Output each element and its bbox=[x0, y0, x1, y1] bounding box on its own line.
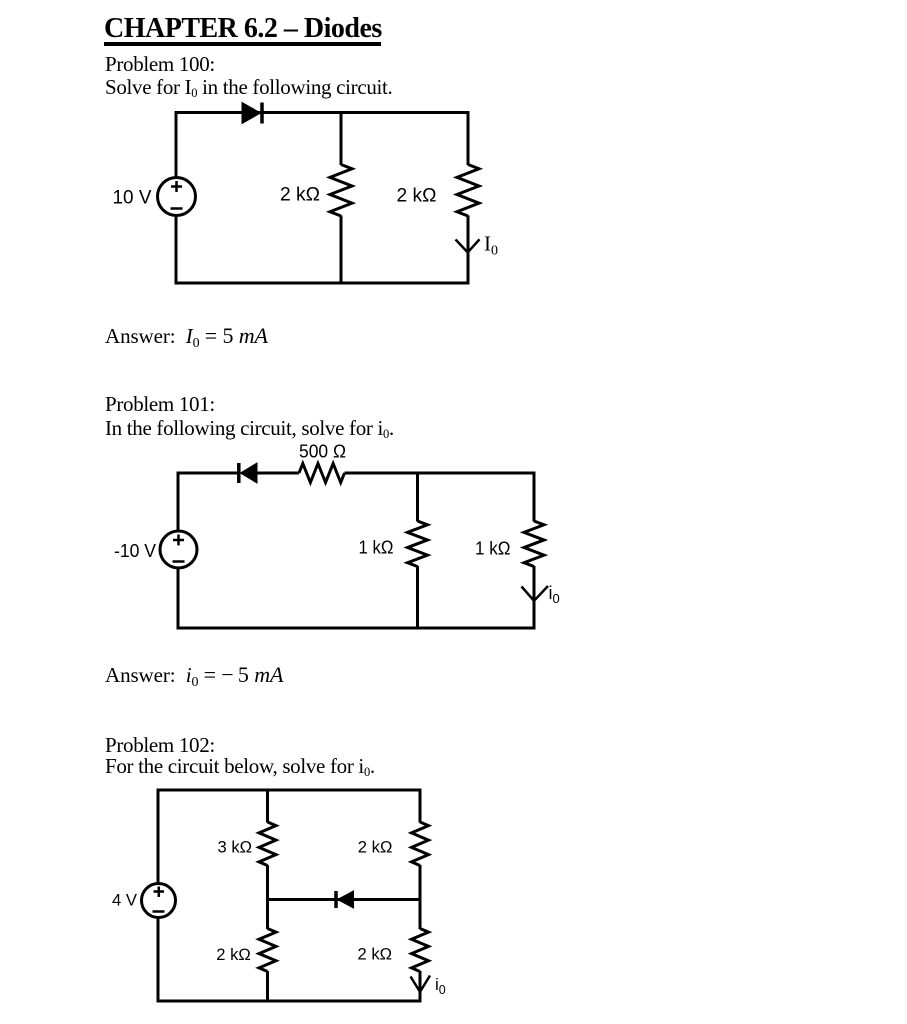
diode D1 bbox=[242, 103, 262, 124]
resistor R9 (2 kOhm, right bottom) bbox=[412, 929, 429, 972]
svg-text:-10 V: -10 V bbox=[114, 541, 156, 561]
paragraph: Problem 102 bbox=[105, 733, 215, 757]
wire: top rail circuit 3 bbox=[157, 789, 422, 792]
resistor R5 (1 kOhm, right branch) bbox=[524, 521, 544, 567]
current arrow I0 bbox=[456, 239, 480, 252]
wire: middle branch lower lead bbox=[340, 216, 343, 285]
wire: middle branch upper lead bbox=[340, 111, 343, 165]
svg-text:2 kΩ: 2 kΩ bbox=[358, 945, 393, 964]
wire: right branch lower lead circuit 2 bbox=[533, 566, 536, 630]
svg-text:3 kΩ: 3 kΩ bbox=[218, 837, 253, 856]
resistor R4 (1 kOhm, middle branch) bbox=[408, 521, 428, 567]
wire: bottom rail circuit 3 bbox=[157, 1000, 422, 1003]
svg-text:500 Ω: 500 Ω bbox=[299, 442, 346, 462]
wire: middle branch upper lead circuit 2 bbox=[416, 472, 419, 522]
wire: middle branch top lead circuit 3 bbox=[266, 789, 269, 823]
diode D2 (pointing left) bbox=[239, 463, 257, 483]
wire: left rail upper (source top lead) bbox=[177, 472, 180, 532]
paragraph: Answer 1 bbox=[105, 324, 268, 348]
wire: middle branch bottom lead circuit 3 bbox=[266, 971, 269, 1003]
wire: left rail lower (source bottom lead) bbox=[175, 216, 178, 285]
svg-text:i0: i0 bbox=[549, 583, 560, 606]
svg-text:2 kΩ: 2 kΩ bbox=[397, 186, 437, 207]
svg-text:1 kΩ: 1 kΩ bbox=[359, 538, 394, 558]
wire: right branch bottom lead circuit 3 bbox=[419, 971, 422, 1003]
paragraph: Solve for I0 bbox=[105, 75, 392, 99]
svg-text:1 kΩ: 1 kΩ bbox=[475, 539, 511, 559]
resistor R8 (2 kOhm, right top) bbox=[412, 822, 429, 866]
resistor R6 (3 kOhm) bbox=[259, 822, 276, 866]
wire: left rail upper (source top lead) bbox=[157, 789, 160, 885]
paragraph: Problem 100 bbox=[105, 52, 215, 76]
wire: left rail lower (source bottom lead) bbox=[157, 918, 160, 1003]
wire: right branch lower lead bbox=[467, 216, 470, 285]
paragraph: Problem 101 bbox=[105, 392, 215, 416]
wire: right branch upper lead bbox=[467, 111, 470, 165]
wire: center horizontal wire (node between branches) bbox=[266, 898, 422, 901]
title: CHAPTER 6.2 - Diodes bbox=[104, 13, 382, 45]
svg-text:2 kΩ: 2 kΩ bbox=[358, 837, 393, 856]
wire: right branch center segment circuit 3 bbox=[419, 865, 422, 929]
paragraph: Answer 2 bbox=[105, 663, 283, 687]
voltage source VS2 (-10 V) bbox=[160, 531, 197, 568]
svg-text:10 V: 10 V bbox=[113, 188, 152, 209]
wire: top rail circuit 1 bbox=[175, 111, 470, 114]
svg-text:I0: I0 bbox=[484, 232, 498, 259]
resistor R2 (2 kOhm, right branch) bbox=[457, 165, 479, 217]
wire: right branch top lead circuit 3 bbox=[419, 789, 422, 823]
wire: left rail upper (source top lead) bbox=[175, 111, 178, 178]
svg-text:2 kΩ: 2 kΩ bbox=[280, 185, 320, 206]
current arrow i0 circuit 3 bbox=[411, 976, 431, 992]
wire: middle branch center segment circuit 3 bbox=[266, 865, 269, 929]
wire: bottom rail circuit 1 bbox=[175, 282, 470, 285]
wire: middle branch lower lead circuit 2 bbox=[416, 566, 419, 630]
svg-text:4 V: 4 V bbox=[112, 892, 137, 910]
wire: bottom rail circuit 2 bbox=[177, 627, 536, 630]
resistor R7 (2 kOhm, middle bottom) bbox=[259, 929, 276, 972]
wire: top rail segment diode to resistor bbox=[256, 472, 299, 475]
svg-text:i0: i0 bbox=[435, 975, 446, 997]
wire: top rail left segment (source to diode) bbox=[177, 472, 240, 475]
current arrow i0 circuit 2 bbox=[522, 586, 549, 601]
wire: right branch upper lead circuit 2 bbox=[533, 472, 536, 522]
voltage source VS1 (10 V) bbox=[158, 178, 196, 216]
paragraph: In the following circuit bbox=[105, 416, 394, 440]
voltage source VS3 (4 V) bbox=[142, 884, 176, 918]
wire: left rail lower (source bottom lead) bbox=[177, 568, 180, 630]
resistor R3 (500 Ohm, series) bbox=[299, 464, 345, 483]
resistor R1 (2 kOhm, middle branch) bbox=[330, 165, 352, 217]
diode D3 (pointing left, on center wire) bbox=[336, 891, 354, 908]
svg-text:2 kΩ: 2 kΩ bbox=[216, 945, 251, 964]
wire: top rail segment resistor to right corner bbox=[345, 472, 536, 475]
paragraph: For the circuit below bbox=[105, 754, 375, 778]
title underline bbox=[104, 42, 381, 46]
